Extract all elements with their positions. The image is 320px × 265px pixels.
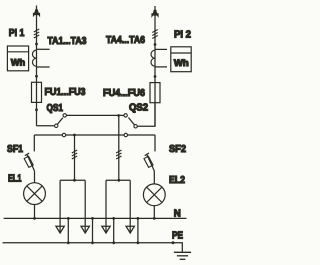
svg-text:QS1: QS1	[47, 103, 64, 114]
N bus	[4, 217, 187, 219]
line-break zigzag on drop 2	[116, 150, 121, 159]
svg-text:SF2: SF2	[169, 144, 186, 155]
switch QS2 blade and pivot	[128, 118, 137, 129]
lamp EL2	[143, 184, 165, 206]
svg-text:FU1...FU3: FU1...FU3	[45, 87, 86, 98]
node: junction on upper bus	[117, 114, 120, 117]
fuse FU4...FU6	[150, 83, 160, 103]
meter PI2 (Wh)	[171, 47, 191, 72]
svg-text:FU4...FU6: FU4...FU6	[103, 88, 145, 99]
nodes: stubs on N bus	[67, 217, 139, 220]
line-break zigzag on drop 1	[72, 150, 77, 159]
wire: L from QS2 pivot to right fuse	[137, 103, 155, 126]
contact circle on lower bus (QS1 lower throw)	[62, 133, 65, 136]
nodes: stubs on PE bus	[67, 241, 175, 244]
node: junction above TA4	[154, 43, 157, 46]
lamp EL1	[24, 183, 46, 205]
node: feeder drop 2 into group box	[117, 179, 120, 182]
node: junction below TA4	[154, 75, 157, 78]
circuit breaker SF1	[24, 153, 34, 183]
svg-text:TA4...TA6: TA4...TA6	[106, 35, 145, 46]
svg-text:TA1...TA3: TA1...TA3	[48, 36, 87, 47]
wire: lower tie bus	[34, 134, 155, 136]
N-PE stub 2	[92, 218, 94, 242]
supply arrow input 1	[33, 9, 40, 17]
svg-text:EL1: EL1	[8, 173, 22, 184]
current transformer TA1...TA3	[32, 49, 49, 67]
wire: right incoming feeder vertical	[154, 6, 156, 126]
switch QS2 fixed contact	[124, 114, 127, 117]
svg-text:Wh: Wh	[174, 58, 189, 68]
wire: EL1 to N bus	[34, 205, 36, 219]
node: feeder drop 1 into group box	[73, 179, 76, 182]
contact circle on lower bus (QS2 lower throw)	[124, 133, 127, 136]
wire: lower bus right corner down to SF2	[154, 135, 156, 151]
node: junction above TA1	[35, 43, 38, 46]
svg-text:EL2: EL2	[169, 175, 185, 186]
svg-text:PI 1: PI 1	[9, 28, 25, 39]
supply arrow input 2	[151, 10, 158, 18]
wire: left incoming feeder vertical	[36, 6, 38, 126]
meter PI1 (Wh)	[7, 46, 28, 71]
wire: EL2 to N bus	[153, 206, 155, 219]
outgoing arrow 3	[102, 226, 110, 233]
N-PE stub 1	[67, 218, 69, 242]
N-PE stub 3	[113, 218, 115, 242]
svg-text:N: N	[174, 209, 181, 220]
svg-text:PE: PE	[172, 230, 183, 241]
wire: lower bus left corner down to SF1	[33, 135, 35, 151]
group feeder box 2	[106, 180, 130, 232]
svg-text:QS2: QS2	[129, 103, 148, 114]
node: EL1 on N	[33, 217, 36, 220]
node: junction below TA1	[35, 75, 38, 78]
outgoing arrow 2	[81, 226, 89, 233]
ground symbol	[174, 252, 191, 259]
N-PE stub 4	[137, 218, 139, 242]
svg-text:PI 2: PI 2	[174, 29, 191, 40]
group feeder box 1	[60, 180, 85, 232]
svg-text:Wh: Wh	[11, 58, 25, 68]
line-break zigzag on input 2	[152, 30, 157, 39]
wire: feeder drop 1	[74, 135, 76, 180]
circuit breaker SF2	[144, 153, 154, 184]
outgoing arrow 1	[56, 226, 64, 233]
switch QS1	[55, 114, 67, 128]
node: junction below FU1	[35, 108, 38, 111]
node: junction on lower bus	[73, 134, 76, 137]
fuse FU1...FU3	[32, 82, 42, 102]
svg-text:SF1: SF1	[7, 144, 23, 155]
outgoing arrow 4	[126, 226, 134, 233]
wire: L from fuse to QS1 pivot	[37, 125, 54, 127]
line-break zigzag on input 1	[34, 29, 39, 38]
wire: feeder drop 2	[118, 116, 120, 181]
current transformer TA4...TA6	[151, 49, 167, 67]
wire: upper tie bus	[67, 114, 124, 116]
node: EL2 on N	[153, 217, 156, 220]
PE bus	[3, 243, 183, 252]
